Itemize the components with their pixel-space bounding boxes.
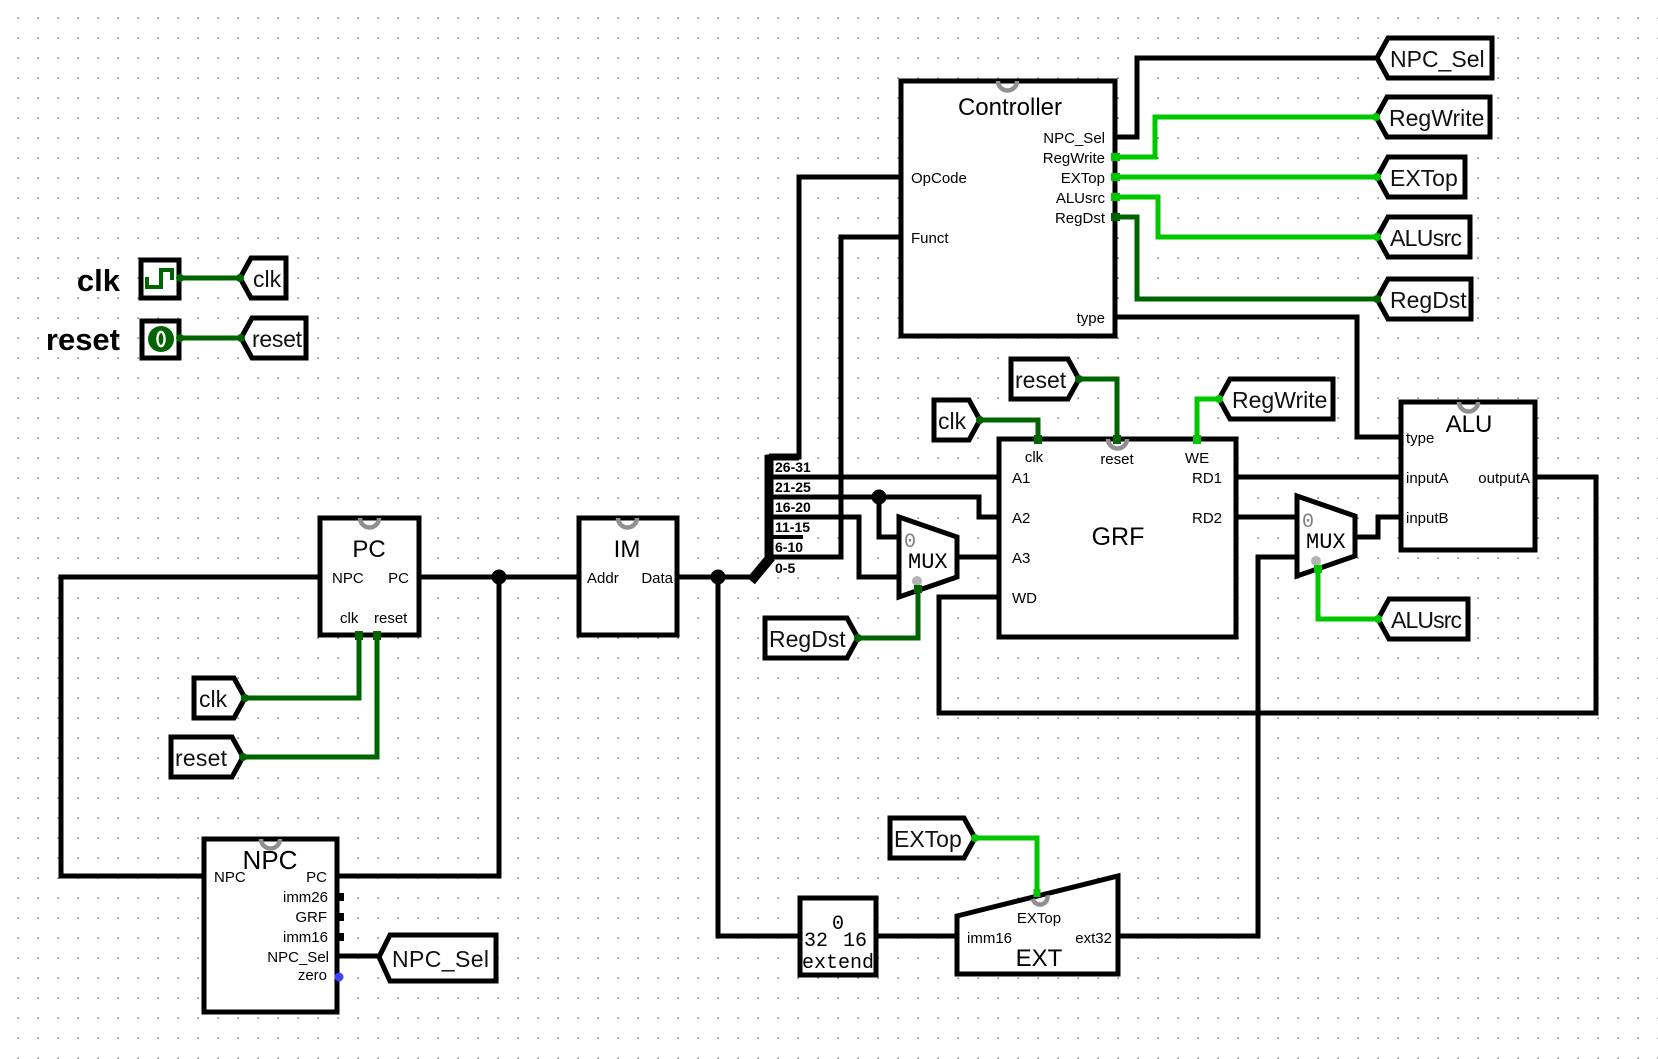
tunnel EXTop (at EXT, tip right) [890, 818, 979, 858]
svg-text:WD: WD [1012, 590, 1037, 607]
svg-text:PC: PC [306, 869, 327, 886]
svg-text:11-15: 11-15 [775, 519, 810, 535]
svg-text:clk: clk [199, 686, 228, 712]
tunnel clk (to PC, tip right) [194, 678, 249, 718]
svg-text:Data: Data [641, 570, 673, 587]
select nub MUX1 [914, 585, 922, 593]
notch Controller [998, 81, 1017, 91]
svg-text:clk: clk [1025, 449, 1044, 466]
svg-text:imm16: imm16 [967, 930, 1012, 947]
wire: EXT ext32 to MUX2 input 1 [1118, 557, 1297, 936]
junction A: PC-IM node [492, 570, 507, 585]
svg-text:RD1: RD1 [1192, 470, 1222, 487]
wire: PC to IM (PC output to IM Addr) [421, 575, 577, 580]
svg-text:EXT: EXT [1016, 945, 1063, 972]
svg-text:reset: reset [175, 745, 228, 771]
svg-text:PC: PC [352, 536, 385, 563]
svg-text:21-25: 21-25 [775, 479, 811, 495]
svg-text:0: 0 [1302, 511, 1314, 534]
svg-text:ALU: ALU [1446, 411, 1493, 438]
svg-text:type: type [1406, 430, 1434, 447]
ALU box [1401, 402, 1535, 550]
svg-text:clk: clk [77, 263, 121, 298]
svg-text:RegWrite: RegWrite [1232, 387, 1327, 413]
extend (bit extender) box [800, 898, 876, 975]
input pin reset (square with 0) [142, 321, 184, 358]
wire: IM Data to splitter root [679, 575, 752, 580]
svg-text:imm26: imm26 [283, 889, 328, 906]
svg-text:clk: clk [938, 408, 967, 434]
svg-text:EXTop: EXTop [1390, 165, 1458, 191]
notch IM [618, 518, 637, 528]
wire: Controller type out to ALU type [1115, 317, 1401, 437]
svg-text:0-5: 0-5 [775, 560, 795, 576]
svg-text:Funct: Funct [911, 230, 949, 247]
svg-text:GRF: GRF [1092, 523, 1145, 551]
wire: rt branch junction to MUX1 input 0 [879, 497, 899, 537]
svg-text:16: 16 [843, 930, 867, 953]
svg-text:clk: clk [340, 610, 359, 627]
svg-text:RegDst: RegDst [769, 626, 846, 652]
tunnel reset (to PC, tip right) [171, 737, 247, 777]
tunnel RegDst (at MUX1, tip right) [765, 618, 862, 658]
tunnel ALUsrc (at MUX2, tip left) [1374, 599, 1468, 639]
svg-text:RegWrite: RegWrite [1043, 150, 1105, 167]
wire: splitter 0-5 to Controller Funct [768, 237, 901, 557]
svg-text:RD2: RD2 [1192, 510, 1222, 527]
notch ALU [1459, 402, 1478, 412]
wire: NPC NPC_Sel pin to tunnel NPC_Sel [339, 954, 379, 959]
svg-text:extend: extend [802, 952, 874, 975]
wire: PC feedback loop (NPC PC-out to PC NPC-in) left/top segment [61, 577, 318, 876]
svg-text:Controller: Controller [958, 94, 1062, 121]
tunnel clk (at GRF, tip right) [934, 400, 984, 440]
wire: GRF RD1 to ALU inputA [1236, 475, 1401, 480]
svg-text:NPC_Sel: NPC_Sel [1043, 130, 1105, 147]
wire: splitter 11-15 (rd) to MUX1 input 1 [768, 517, 899, 577]
svg-text:ALUsrc: ALUsrc [1391, 607, 1462, 633]
svg-text:reset: reset [1100, 451, 1134, 468]
svg-text:inputB: inputB [1406, 510, 1449, 527]
wire: GRF RD2 to MUX2 input 0 [1236, 515, 1297, 520]
wire: tunnel ALUsrc to MUX2 select [1318, 569, 1378, 619]
svg-text:outputA: outputA [1478, 470, 1530, 487]
input pin clk (square with clock waveform) [141, 260, 184, 298]
svg-text:A2: A2 [1012, 510, 1030, 527]
junction B: instruction node [711, 570, 726, 585]
svg-text:NPC: NPC [332, 570, 364, 587]
tunnel NPC_Sel (at NPC, tip left) [379, 935, 496, 981]
select nub MUX2 [1314, 565, 1322, 573]
svg-text:reset: reset [46, 322, 120, 357]
svg-text:reset: reset [1015, 367, 1067, 393]
PC register box [320, 518, 419, 635]
svg-text:clk: clk [253, 266, 282, 292]
svg-text:NPC_Sel: NPC_Sel [392, 946, 489, 972]
NPC box [204, 839, 344, 1012]
svg-text:RegDst: RegDst [1055, 210, 1106, 227]
wire: clk pin to tunnel clk (dark green, input area) [180, 276, 240, 281]
tunnel reset (at GRF, tip right) [1011, 359, 1083, 399]
svg-text:type: type [1077, 310, 1105, 327]
svg-text:ext32: ext32 [1075, 930, 1112, 947]
IM instruction memory box [579, 518, 677, 635]
svg-text:NPC_Sel: NPC_Sel [267, 949, 329, 966]
splitter spine [765, 455, 774, 558]
wire: Controller RegWrite out to tunnel RegWrite [1115, 117, 1376, 157]
svg-text:RegDst: RegDst [1390, 287, 1467, 313]
svg-text:ALUsrc: ALUsrc [1390, 225, 1462, 251]
wire: tunnel EXTop to EXT EXTop select [975, 838, 1037, 897]
wire: Controller ALUsrc out to tunnel ALUsrc [1115, 197, 1377, 237]
svg-text:EXTop: EXTop [1017, 910, 1061, 927]
wire: tunnel RegDst to MUX1 select [858, 588, 918, 638]
svg-text:EXTop: EXTop [1061, 170, 1105, 187]
wire: MUX1 output to GRF A3 [958, 555, 999, 560]
splitter branch stub 26-31 [769, 454, 799, 461]
notch NPC [261, 839, 280, 849]
svg-text:EXTop: EXTop [894, 826, 962, 852]
wire: reset pin to tunnel reset (dark green, input area) [180, 336, 241, 341]
svg-text:NPC: NPC [214, 869, 246, 886]
GRF register file box [999, 435, 1236, 637]
MUX2 (ALUsrc mux) [1297, 496, 1355, 576]
svg-text:Addr: Addr [587, 570, 619, 587]
svg-text:32: 32 [804, 930, 828, 953]
notch PC [360, 518, 379, 528]
svg-text:6-10: 6-10 [775, 539, 803, 555]
tunnel NPC_Sel (controller out, tip left) [1377, 38, 1492, 78]
svg-text:ALUsrc: ALUsrc [1056, 190, 1106, 207]
svg-text:16-20: 16-20 [775, 499, 811, 515]
svg-text:zero: zero [298, 967, 327, 984]
wire: Controller NPC_Sel out to tunnel NPC_Sel [1115, 58, 1377, 137]
tunnel reset (input side, tip left) [237, 318, 306, 358]
wire: splitter 6-10 stub [768, 535, 801, 539]
svg-text:PC: PC [388, 570, 409, 587]
wire: splitter 16-20 to GRF A2 [768, 497, 999, 517]
wire: Controller EXTop out to tunnel EXTop [1115, 175, 1377, 180]
tunnel EXTop (controller out, tip left) [1373, 157, 1465, 197]
svg-text:26-31: 26-31 [775, 459, 811, 475]
svg-text:RegWrite: RegWrite [1389, 105, 1484, 131]
splitter root diagonal [751, 557, 771, 581]
tunnel RegWrite (controller out, tip left) [1372, 97, 1490, 137]
wire: tunnel clk to GRF clk [980, 420, 1038, 439]
wire: splitter 26-31 to Controller OpCode [768, 177, 901, 457]
tunnel clk (input side, tip left) [236, 258, 286, 298]
wire: instruction down to extend input [718, 577, 798, 936]
svg-text:IM: IM [614, 536, 641, 563]
svg-text:reset: reset [252, 326, 303, 352]
notch EXT (on slant) [1033, 895, 1049, 906]
wire: extend output to EXT imm16 [878, 934, 957, 939]
svg-text:GRF: GRF [295, 909, 327, 926]
svg-text:imm16: imm16 [283, 929, 328, 946]
pin nubs on PC clk/reset [355, 631, 363, 640]
MUX1 (RegDst mux) [899, 517, 957, 597]
wire: Controller RegDst out to tunnel RegDst [1115, 217, 1377, 299]
select nub EXT [1034, 889, 1041, 897]
svg-text:NPC_Sel: NPC_Sel [1390, 46, 1485, 72]
tunnel RegDst (controller out, tip left) [1373, 279, 1471, 319]
wire: tunnel RegWrite to GRF WE [1197, 399, 1219, 439]
EXT sign/zero extender box [957, 876, 1118, 974]
wire: MUX2 output to ALU inputB [1357, 517, 1401, 537]
svg-text:reset: reset [374, 610, 408, 627]
wire: tunnel reset to PC reset [243, 635, 377, 757]
wire: tunnel clk to PC clk [245, 635, 359, 698]
wire: splitter 21-25 to GRF A1 [768, 475, 999, 480]
svg-text:0: 0 [904, 531, 916, 554]
tunnel ALUsrc (controller out, tip left) [1373, 217, 1470, 257]
svg-text:inputA: inputA [1406, 470, 1449, 487]
svg-text:A3: A3 [1012, 550, 1030, 567]
wire: ALU outputA loop to GRF WD [939, 477, 1596, 713]
junction C: rt field node [872, 490, 887, 505]
notch GRF [1108, 439, 1127, 449]
wire: NPC PC output up to junction A [339, 577, 499, 876]
svg-text:OpCode: OpCode [911, 170, 967, 187]
wire: tunnel reset to GRF reset [1079, 379, 1117, 439]
svg-text:A1: A1 [1012, 470, 1030, 487]
Controller box [901, 81, 1120, 336]
svg-text:WE: WE [1185, 450, 1209, 467]
tunnel RegWrite (at GRF WE, tip left) [1215, 379, 1333, 419]
